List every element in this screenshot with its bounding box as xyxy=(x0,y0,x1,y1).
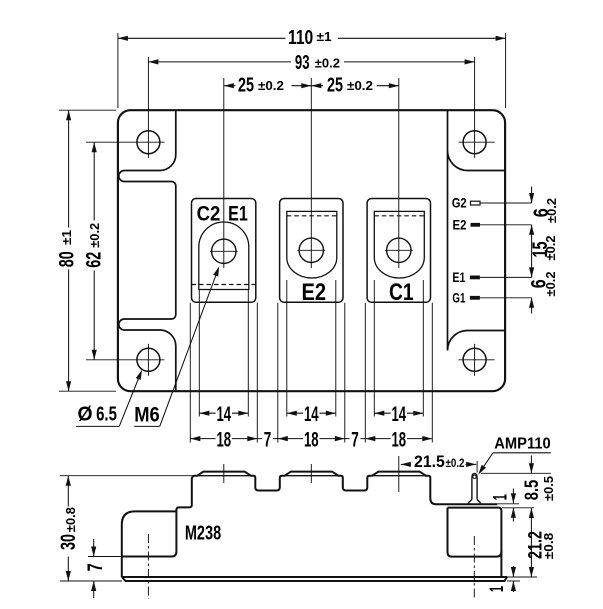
svg-text:18: 18 xyxy=(392,427,407,451)
module outline (top view) xyxy=(118,110,505,391)
svg-text:M238: M238 xyxy=(185,523,221,545)
hole crosshairs xyxy=(86,141,165,143)
aux pin G2 xyxy=(471,201,481,205)
svg-text:21.5: 21.5 xyxy=(414,452,445,471)
svg-text:Ø: Ø xyxy=(77,404,92,426)
svg-text:±0.2: ±0.2 xyxy=(544,235,558,260)
svg-text:E2: E2 xyxy=(302,279,327,306)
svg-text:±0.8: ±0.8 xyxy=(63,507,78,532)
svg-text:E1: E1 xyxy=(228,201,248,225)
dim 21.5 +/-0.2 xyxy=(476,461,478,473)
svg-text:±0.8: ±0.8 xyxy=(541,533,556,560)
baseplate xyxy=(122,576,507,578)
dim 30 +/-0.8 xyxy=(60,475,193,477)
mounting hole at (148.4,142.2) xyxy=(137,131,160,154)
E2 inner terminal xyxy=(287,211,337,278)
dim 1 (pin seat above housing) xyxy=(512,489,514,504)
svg-text:±0.2: ±0.2 xyxy=(87,223,102,248)
svg-text:1: 1 xyxy=(491,494,512,500)
dim 93 +/-0.2 xyxy=(148,61,291,63)
dim 1 (baseplate protrusion) xyxy=(512,566,514,577)
mounting hole at (148.4,359.8) xyxy=(137,348,160,371)
svg-text:±0.2: ±0.2 xyxy=(446,456,465,470)
mounting hole at (474.6,142.2) xyxy=(463,131,486,154)
svg-text:7: 7 xyxy=(351,427,359,451)
side view: case base (left end) xyxy=(122,511,177,577)
dims 25 +/-0.2 xyxy=(224,85,236,87)
svg-text:±1: ±1 xyxy=(317,29,332,44)
extension lines below terminal blocks xyxy=(198,290,200,417)
svg-text:1: 1 xyxy=(487,586,508,592)
terminal hole 2 xyxy=(299,238,323,262)
svg-text:C2: C2 xyxy=(197,201,221,225)
side view center lines xyxy=(147,534,149,599)
terminal hole 3 xyxy=(387,238,411,262)
svg-text:7: 7 xyxy=(264,427,272,451)
gate pin (AMP110 tab) xyxy=(472,474,477,500)
aux pin E1 xyxy=(470,276,480,280)
svg-text:62: 62 xyxy=(82,252,105,268)
svg-text:14: 14 xyxy=(217,402,232,426)
dim 21.2 +/-0.8 xyxy=(530,508,532,577)
svg-text:25: 25 xyxy=(327,74,343,97)
svg-text:30: 30 xyxy=(57,534,80,550)
svg-text:±0.2: ±0.2 xyxy=(315,55,340,70)
svg-text:±0.2: ±0.2 xyxy=(258,78,284,93)
mounting hole at (474.6,359.8) xyxy=(463,348,486,371)
right aux-pin pitch dims 6 / 15 / 6 xyxy=(531,187,533,204)
svg-text:80: 80 xyxy=(56,251,79,267)
top-left mounting boss relief xyxy=(119,110,176,391)
dims 18 and 7 xyxy=(190,438,215,440)
svg-text:18: 18 xyxy=(217,427,232,451)
dim 8.5 +/-0.5 xyxy=(530,456,532,474)
svg-text:14: 14 xyxy=(304,402,319,426)
aux pin G1 xyxy=(470,296,480,300)
svg-text:110: 110 xyxy=(288,26,313,49)
dim 7 (flange) xyxy=(88,556,122,558)
svg-text:G2: G2 xyxy=(452,196,467,211)
svg-text:M6: M6 xyxy=(134,402,160,426)
svg-text:±0.2: ±0.2 xyxy=(544,271,558,296)
top-right mounting boss relief xyxy=(448,110,506,350)
svg-text:14: 14 xyxy=(392,402,407,426)
svg-text:8.5: 8.5 xyxy=(522,479,543,500)
terminal block C1 xyxy=(367,199,430,303)
side view: gate housing block (right) xyxy=(448,507,499,509)
bump top center ticks xyxy=(223,464,225,483)
terminal center lines xyxy=(223,78,225,268)
C1 inner terminal xyxy=(374,211,424,278)
svg-text:25: 25 xyxy=(238,74,254,97)
svg-text:7: 7 xyxy=(84,563,107,571)
svg-text:±0.2: ±0.2 xyxy=(545,198,559,223)
terminal block E2 xyxy=(280,199,343,303)
svg-text:G1: G1 xyxy=(452,291,465,306)
svg-text:E2: E2 xyxy=(453,218,467,233)
side view: cover skirt + left edge + bumps profile xyxy=(122,472,498,557)
right side extension lines xyxy=(481,472,551,474)
terminal plate seats xyxy=(194,475,255,477)
aux pin E2 xyxy=(471,223,481,227)
C2/E1 arch terminal xyxy=(199,222,249,289)
svg-text:AMP110: AMP110 xyxy=(494,436,551,453)
svg-text:C1: C1 xyxy=(389,279,414,306)
svg-text:93: 93 xyxy=(295,51,310,74)
dims 14 xyxy=(199,412,215,414)
dim 110 +/-1 xyxy=(117,33,119,108)
svg-text:±0.2: ±0.2 xyxy=(347,78,373,93)
svg-text:18: 18 xyxy=(304,427,319,451)
svg-text:E1: E1 xyxy=(452,270,465,285)
svg-text:±1: ±1 xyxy=(59,230,74,245)
terminal hole 1 xyxy=(212,239,236,263)
svg-text:±0.5: ±0.5 xyxy=(541,476,556,501)
svg-text:6.5: 6.5 xyxy=(96,404,117,426)
terminal block C2/E1 xyxy=(192,199,256,303)
dim 62 +/-0.2 (left) xyxy=(93,142,95,220)
dim 80 +/-1 (left) xyxy=(59,109,116,111)
